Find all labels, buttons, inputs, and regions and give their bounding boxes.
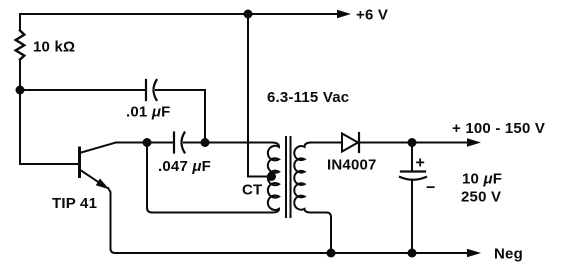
svg-text:CT: CT [242, 182, 262, 199]
node E bottom junction [327, 249, 336, 258]
capacitor C2 .047 uF [158, 133, 211, 176]
svg-text:+: + [416, 155, 426, 172]
svg-text:+6 V: +6 V [356, 7, 388, 24]
node C2 left junction [143, 138, 152, 147]
svg-text:6.3-115 Vac: 6.3-115 Vac [267, 89, 349, 106]
svg-text:IN4007: IN4007 [327, 157, 377, 174]
capacitor C1 .01 uF [126, 80, 170, 121]
svg-text:.047 μF: .047 μF [158, 158, 211, 175]
node top junction [244, 10, 253, 19]
node B junction [201, 138, 210, 147]
transformer T1 primary winding [268, 143, 279, 213]
node F bottom junction [408, 249, 417, 258]
wire left vertical to base [20, 90, 78, 164]
transformer T1 secondary winding [294, 143, 311, 213]
wire collector rail [116, 142, 174, 144]
svg-text:TIP 41: TIP 41 [52, 195, 97, 212]
wire to C1 [20, 89, 146, 91]
wire top rail [20, 13, 248, 15]
svg-text:+ 100 - 150 V: + 100 - 150 V [452, 120, 545, 137]
svg-text:10 kΩ: 10 kΩ [33, 39, 75, 56]
wire secondary bottom down [311, 213, 331, 254]
wire C2 to transformer primary top [184, 142, 272, 144]
wire bottom rail [115, 252, 468, 254]
power +6 V arrow [248, 7, 388, 24]
svg-text:10 μF: 10 μF [462, 171, 502, 188]
svg-text:.01 μF: .01 μF [126, 104, 170, 121]
node CT center tap [267, 172, 276, 181]
output +100-150V arrow [412, 120, 545, 147]
svg-text:−: − [426, 180, 436, 197]
wire left vertical top [19, 14, 21, 31]
wire resistor to junction [19, 60, 21, 91]
svg-text:Neg: Neg [494, 246, 523, 263]
node D output junction [408, 138, 417, 147]
capacitor C3 10 uF [400, 143, 502, 254]
wire node C2 down to primary bottom [147, 143, 272, 213]
wire +6V rail down to CT [248, 14, 268, 177]
node A left junction [16, 86, 25, 95]
wire C1 to node B [156, 90, 205, 143]
wire diode to node D [359, 142, 412, 144]
wire emitter to bottom rail [108, 188, 115, 253]
wire secondary top to diode [311, 142, 342, 144]
svg-text:250 V: 250 V [461, 189, 501, 206]
transistor Q1 TIP 41 [52, 143, 116, 213]
transformer T1 core [285, 137, 287, 217]
diode D1 IN4007 [327, 133, 377, 174]
output Neg arrow [467, 246, 523, 263]
resistor 10 kOhm [16, 31, 76, 60]
